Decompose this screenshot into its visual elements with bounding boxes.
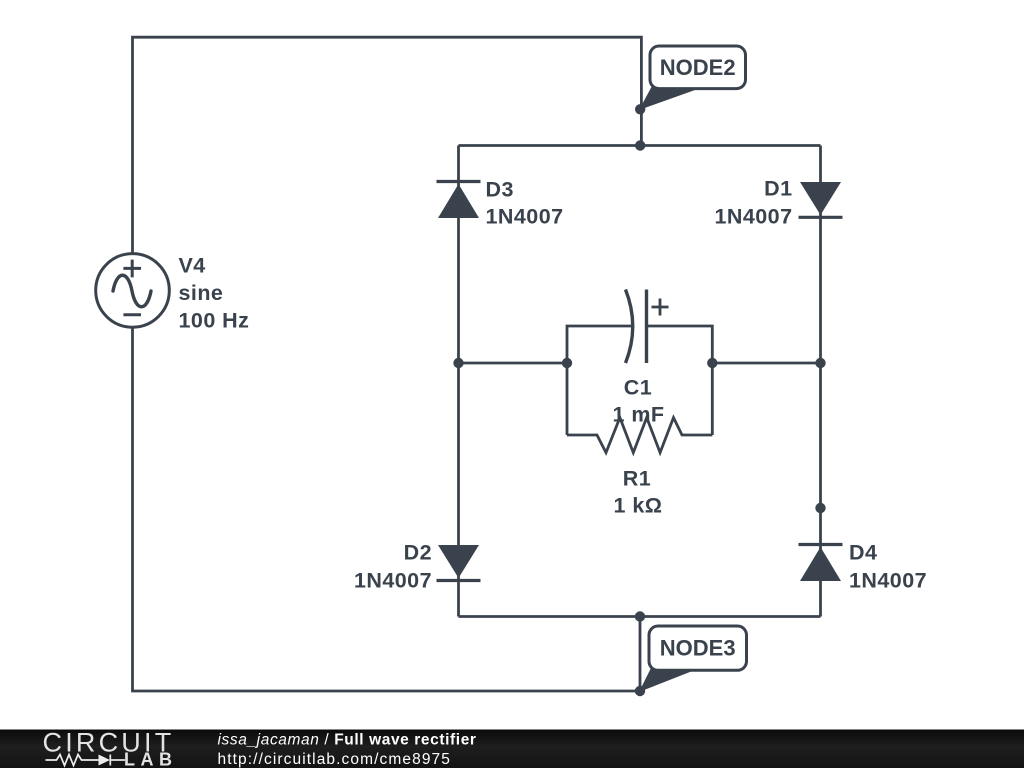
junction dot top rail	[635, 140, 645, 150]
node NODE3 callout	[639, 626, 747, 692]
svg-text:http://circuitlab.com/cme8975: http://circuitlab.com/cme8975	[218, 751, 452, 768]
resistor R1	[567, 418, 712, 453]
wire RC loop right side	[647, 326, 713, 435]
svg-text:NODE3: NODE3	[660, 636, 736, 661]
diode D2	[437, 545, 481, 581]
svg-text:C1: C1	[624, 376, 652, 400]
diode D1	[799, 182, 843, 217]
svg-text:100 Hz: 100 Hz	[179, 308, 250, 332]
wire mid rail left segment	[459, 362, 568, 365]
svg-text:1 kΩ: 1 kΩ	[614, 494, 663, 518]
node NODE2 callout	[639, 46, 746, 110]
svg-text:D2: D2	[404, 541, 432, 565]
svg-text:1N4007: 1N4007	[486, 205, 564, 229]
svg-text:1 mF: 1 mF	[613, 403, 665, 427]
capacitor C1	[626, 290, 669, 364]
svg-text:1N4007: 1N4007	[849, 569, 927, 593]
svg-text:NODE2: NODE2	[660, 55, 736, 80]
wire RC loop left side	[567, 326, 633, 435]
wire bottom-left loop: V4 bottom to NODE3 dot	[133, 327, 641, 691]
svg-text:LAB: LAB	[124, 750, 178, 768]
wire mid rail right segment	[712, 362, 820, 365]
svg-text:D4: D4	[849, 541, 877, 565]
wire top rail y=145	[459, 144, 821, 147]
svg-text:D1: D1	[764, 177, 792, 201]
diode D3	[437, 182, 481, 219]
junction dot node2 anchor	[635, 104, 645, 114]
svg-text:D3: D3	[486, 178, 514, 202]
svg-text:R1: R1	[623, 467, 651, 491]
junction dot bottom rail	[635, 611, 645, 621]
label V4 sine 100 Hz	[179, 254, 250, 333]
label D4 1N4007	[849, 541, 927, 593]
label R1 1 kOhm	[614, 467, 663, 518]
diode D4	[799, 545, 843, 582]
svg-text:1N4007: 1N4007	[354, 569, 432, 593]
label D1 1N4007	[714, 177, 792, 229]
voltage source V4	[96, 254, 170, 328]
svg-text:1N4007: 1N4007	[714, 205, 792, 229]
logo CIRCUIT LAB	[43, 728, 178, 768]
label D2 1N4007	[354, 541, 432, 593]
svg-text:issa_jacaman / Full wave recti: issa_jacaman / Full wave rectifier	[218, 732, 477, 749]
junction dot loop left	[562, 358, 572, 368]
wire NODE3 stub	[639, 617, 642, 692]
wire bottom rail y=616.5	[459, 615, 821, 618]
junction dot node3 anchor	[635, 686, 645, 696]
label D3 1N4007	[486, 178, 564, 229]
junction dot mid rail right	[815, 358, 825, 368]
logo mini schematic	[46, 755, 126, 766]
wire top-left loop: V4 top to NODE2 stub	[133, 37, 642, 254]
wire left branch x=458.5	[457, 146, 460, 617]
wire right branch x=820.5	[819, 146, 822, 617]
label C1 1 mF	[613, 376, 665, 427]
svg-text:sine: sine	[179, 281, 224, 305]
junction dot above D4	[815, 503, 825, 513]
junction dot mid rail left	[453, 358, 463, 368]
junction dot loop right	[707, 358, 717, 368]
svg-text:V4: V4	[179, 254, 206, 278]
